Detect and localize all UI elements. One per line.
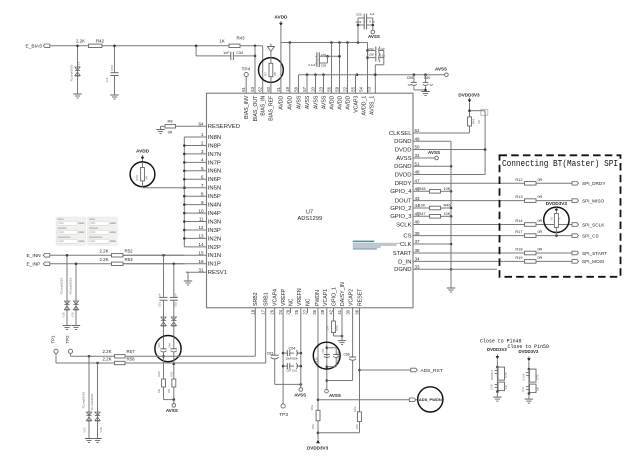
- svg-text:15: 15: [198, 251, 204, 256]
- capacitor C55 pair decoupling top: [356, 12, 375, 43]
- svg-text:0R: 0R: [157, 389, 161, 393]
- svg-text:AVDD: AVDD: [329, 95, 335, 109]
- svg-text:C65: C65: [321, 348, 325, 353]
- svg-text:AVSS: AVSS: [166, 408, 178, 413]
- svg-text:25: 25: [294, 309, 299, 314]
- svg-text:AVSS: AVSS: [313, 95, 319, 109]
- svg-text:17: 17: [261, 309, 266, 314]
- svg-text:2.2K: 2.2K: [99, 248, 108, 253]
- svg-text:AVDD: AVDD: [288, 95, 294, 109]
- svg-text:21: 21: [276, 86, 281, 91]
- op-amp U7 ADS1299 IC body: [207, 93, 414, 308]
- svg-text:AVSS: AVSS: [435, 67, 447, 72]
- svg-text:57: 57: [302, 86, 307, 91]
- svg-text:12: 12: [198, 225, 204, 230]
- svg-text:29: 29: [286, 309, 291, 314]
- svg-text:64: 64: [198, 122, 204, 127]
- svg-text:42: 42: [329, 309, 334, 314]
- svg-text:10K: 10K: [311, 424, 315, 429]
- svg-text:RESET: RESET: [357, 288, 363, 306]
- svg-text:V16: V16: [70, 312, 74, 318]
- svg-text:18: 18: [250, 309, 255, 314]
- svg-text:RESERVED: RESERVED: [208, 124, 240, 130]
- resistor R56 10K on GPIO_1: [326, 308, 344, 338]
- svg-text:10: 10: [198, 208, 204, 213]
- svg-text:SRB1: SRB1: [264, 292, 270, 306]
- svg-text:E_BIAS: E_BIAS: [26, 44, 43, 50]
- capacitor C64 pair VREFP-VREFN: [283, 347, 301, 361]
- svg-text:DVDD3V3: DVDD3V3: [518, 349, 538, 354]
- svg-text:VREFP: VREFP: [281, 288, 287, 306]
- svg-text:V18: V18: [99, 427, 103, 433]
- svg-text:C53: C53: [110, 65, 114, 71]
- svg-text:31: 31: [198, 267, 204, 272]
- svg-text:30: 30: [346, 309, 351, 314]
- TVS array V14 (RComp0502/2) on E_BIAS: [69, 45, 80, 95]
- ground for DGND trunk: [447, 288, 455, 292]
- svg-text:AVDD: AVDD: [337, 95, 343, 109]
- svg-text:E_INN: E_INN: [27, 253, 42, 259]
- wire RESET vertical pin36: [358, 308, 361, 412]
- svg-text:44: 44: [415, 203, 421, 208]
- svg-text:DVDD3V3: DVDD3V3: [546, 201, 568, 206]
- svg-text:AVSS_1: AVSS_1: [369, 96, 375, 115]
- svg-text:DGND: DGND: [394, 164, 411, 170]
- capacitor C66 on VCAP2 pin30: [327, 308, 356, 381]
- svg-text:24: 24: [278, 309, 283, 314]
- svg-text:AVSS: AVSS: [368, 34, 380, 39]
- svg-text:SCLK: SCLK: [396, 222, 411, 228]
- wire AVDD rail: [281, 41, 368, 44]
- svg-text:27: 27: [303, 309, 308, 314]
- title Connecting BT(Master) SPI: [502, 158, 618, 169]
- svg-text:R46: R46: [444, 203, 451, 208]
- svg-text:0.1u: 0.1u: [380, 53, 386, 57]
- svg-text:DGND: DGND: [394, 139, 411, 145]
- svg-text:RComp0502/2: RComp0502/2: [82, 391, 86, 408]
- wire R58 to SRB1: [125, 362, 266, 364]
- svg-text:IN5N: IN5N: [208, 186, 221, 192]
- parameter table 2: [88, 217, 118, 245]
- svg-text:35: 35: [312, 309, 317, 314]
- svg-text:R19: R19: [515, 255, 522, 260]
- wire R43 output node to pin62: [241, 45, 263, 48]
- svg-text:IN6N: IN6N: [208, 169, 221, 175]
- ground for V14: [73, 94, 81, 98]
- ground for DAISY_IN: [338, 341, 346, 345]
- capacitor C44 in circle right: [169, 337, 177, 380]
- svg-text:63: 63: [250, 86, 255, 91]
- wire DVDD3V3 branch to DVDD trunk: [468, 109, 485, 174]
- wire E_BIAS to R42: [50, 45, 88, 47]
- svg-text:C44: C44: [169, 343, 172, 348]
- capacitor C52 C58 cluster on AVDD_1: [368, 47, 386, 65]
- svg-text:0R: 0R: [477, 120, 481, 124]
- svg-text:10K: 10K: [326, 325, 330, 330]
- wire DGND pin33: [413, 268, 497, 270]
- svg-text:DGND: DGND: [394, 267, 411, 273]
- capacitor C59 on AVSS rail: [407, 75, 426, 90]
- svg-text:IN3P: IN3P: [208, 228, 221, 234]
- svg-text:START: START: [393, 251, 412, 257]
- test point TP2: [65, 335, 73, 354]
- node E_BIAS input tag: [26, 44, 50, 50]
- node ADS_PWDN tag and emphasis circle: [409, 387, 443, 412]
- svg-text:C72: C72: [536, 374, 540, 380]
- resistor R17 0R: [515, 229, 572, 237]
- svg-text:1K: 1K: [219, 39, 224, 44]
- svg-text:46: 46: [415, 187, 421, 192]
- svg-text:C64: C64: [289, 347, 296, 351]
- svg-text:V17: V17: [83, 427, 87, 433]
- svg-text:C51: C51: [356, 20, 362, 24]
- wire AVDD_1 pin54 stub from rail corner: [366, 43, 369, 94]
- resistor R20 0R: [157, 371, 166, 400]
- resistor R52 2.2K: [99, 248, 133, 257]
- wire DVDD pin48: [413, 174, 485, 176]
- svg-text:R52: R52: [124, 248, 133, 253]
- svg-text:R20: R20: [157, 371, 161, 377]
- svg-text:VCAP1: VCAP1: [323, 289, 329, 306]
- svg-text:AVDD: AVDD: [279, 95, 285, 109]
- U7 bottom pin numbers and names: [250, 282, 363, 315]
- svg-text:R61: R61: [310, 404, 314, 410]
- svg-text:11: 11: [199, 217, 204, 222]
- wire TP1 to R58 row: [56, 353, 115, 364]
- svg-text:AVDD: AVDD: [136, 149, 150, 154]
- svg-text:R43: R43: [236, 35, 245, 40]
- svg-text:AVSS: AVSS: [305, 95, 311, 109]
- wire AVDD pin19 stub: [289, 43, 291, 94]
- svg-text:0R: 0R: [538, 256, 543, 260]
- svg-text:AVDD: AVDD: [274, 15, 288, 20]
- svg-text:R7: R7: [263, 72, 267, 76]
- resistor R15 10K pullup in emphasis circle: [544, 201, 569, 236]
- svg-text:1nF: 1nF: [158, 293, 162, 298]
- AVSS pigtail right end of rail: [435, 67, 448, 77]
- svg-text:NC: NC: [305, 298, 311, 306]
- svg-text:23: 23: [319, 86, 324, 91]
- node SPI_DRDY tag: [572, 181, 606, 186]
- svg-text:DRDY: DRDY: [395, 181, 412, 187]
- resistor R42 2.2K: [76, 39, 105, 48]
- capacitor C72 C71 decoupling close to pin50: [518, 349, 539, 403]
- capacitor C54 1nF across R43: [195, 45, 255, 61]
- svg-text:SPI_SCLK: SPI_SCLK: [582, 222, 605, 227]
- svg-text:CS: CS: [403, 234, 411, 240]
- svg-text:GPIO_2: GPIO_2: [390, 206, 411, 212]
- label Close to Pin50: [508, 344, 550, 350]
- wire CLK pin37 tied to DGND trunk: [413, 243, 451, 245]
- svg-text:AVSS: AVSS: [396, 156, 411, 162]
- wire D_IN to SPI_MOSI row: [413, 260, 525, 262]
- svg-text:BIAS_REF: BIAS_REF: [269, 96, 275, 121]
- svg-text:IN4N: IN4N: [208, 203, 221, 209]
- svg-text:43: 43: [415, 196, 421, 201]
- svg-text:C66: C66: [343, 353, 349, 357]
- svg-text:49: 49: [415, 137, 421, 142]
- svg-text:50: 50: [415, 145, 421, 150]
- svg-text:SPI_DRDY: SPI_DRDY: [582, 181, 606, 186]
- ground for C59 C60: [421, 92, 429, 96]
- svg-text:R53: R53: [124, 257, 133, 262]
- svg-text:NC: NC: [288, 298, 294, 306]
- wire TP2 to R57 row: [71, 353, 115, 357]
- svg-text:20: 20: [311, 86, 316, 91]
- resistor R44 0R pullup CLKSEL: [468, 117, 482, 133]
- svg-text:IN8P: IN8P: [208, 143, 221, 149]
- svg-text:TP3: TP3: [279, 412, 288, 418]
- svg-text:U7: U7: [306, 210, 313, 216]
- wire DGND pin49 to trunk: [413, 140, 451, 142]
- svg-text:CLK: CLK: [400, 242, 412, 248]
- capacitor C70 C68 decoupling close to pin48: [487, 347, 508, 401]
- wire BIAS_OUT vertical pin63: [254, 46, 257, 93]
- ground for V18: [93, 439, 101, 443]
- svg-text:K: K: [557, 217, 561, 219]
- svg-text:47: 47: [415, 179, 421, 184]
- svg-text:2.2K: 2.2K: [99, 257, 108, 262]
- svg-text:1nF: 1nF: [223, 51, 230, 55]
- resistor R53 2.2K: [99, 257, 133, 266]
- wire START to SPI_START row: [413, 252, 525, 254]
- svg-text:10K: 10K: [419, 204, 426, 208]
- test point TP3 on VREFP: [279, 404, 288, 418]
- TVS array V15 (RComp0502/2) on E_INN: [59, 254, 69, 326]
- resistor R19 0R: [515, 255, 572, 263]
- svg-text:BIAS_OUT: BIAS_OUT: [253, 95, 259, 121]
- svg-text:DVDD: DVDD: [395, 147, 412, 153]
- node SPI_CS tag: [572, 233, 599, 238]
- svg-text:36: 36: [355, 309, 360, 314]
- svg-text:D_IN: D_IN: [398, 259, 411, 265]
- svg-text:ADS1299: ADS1299: [297, 216, 322, 222]
- wire E_INN row: [50, 254, 112, 256]
- label Close to Pin48: [480, 339, 522, 345]
- svg-text:PWDN: PWDN: [315, 290, 321, 306]
- svg-text:38: 38: [415, 248, 421, 253]
- AVSS pigtail for C55: [368, 30, 380, 39]
- TVS pair below C61: [161, 313, 166, 337]
- svg-text:Connecting BT(Master) SPI: Connecting BT(Master) SPI: [502, 158, 618, 169]
- svg-text:TP4: TP4: [241, 66, 250, 71]
- node ADS_RST tag: [411, 368, 443, 374]
- svg-text:SPI_START: SPI_START: [582, 251, 607, 256]
- svg-text:IN1P: IN1P: [208, 262, 221, 268]
- wire PWDN row to ADS_PWDN: [318, 399, 418, 401]
- ground for V16: [72, 326, 80, 330]
- wire DRDY to SPI_DRDY row: [413, 182, 525, 184]
- svg-text:61: 61: [241, 86, 246, 91]
- wire AVDD R10 to input bus: [143, 187, 185, 189]
- capacitor C57 C56 pair on AVSS rail: [316, 52, 341, 67]
- svg-text:0.1uF: 0.1uF: [521, 373, 525, 380]
- svg-text:0R: 0R: [538, 230, 543, 234]
- svg-text:R17: R17: [515, 229, 522, 234]
- svg-text:R18: R18: [515, 247, 522, 252]
- svg-text:10K: 10K: [444, 187, 451, 191]
- svg-text:IN4P: IN4P: [208, 211, 221, 217]
- svg-text:C60: C60: [424, 76, 431, 80]
- svg-text:C62: C62: [174, 302, 178, 307]
- svg-text:1uF: 1uF: [380, 47, 385, 51]
- svg-text:GPIO_3: GPIO_3: [390, 214, 412, 220]
- svg-text:IN7N: IN7N: [208, 152, 221, 158]
- wire R20 R21 common to AVSS: [164, 398, 176, 403]
- wire NC pin29 stub: [290, 308, 292, 313]
- junction CS pullup: [555, 234, 558, 237]
- svg-text:C59: C59: [407, 76, 414, 80]
- svg-text:R62: R62: [353, 406, 357, 412]
- svg-text:R8: R8: [167, 119, 173, 124]
- svg-text:10uF/6.3: 10uF/6.3: [490, 369, 494, 380]
- svg-text:10: 10: [549, 216, 553, 220]
- svg-text:CLKSEL: CLKSEL: [389, 131, 412, 137]
- wire R62 to DVDD3V3 bottom flag: [318, 432, 360, 434]
- svg-text:IN3N: IN3N: [208, 219, 221, 225]
- svg-text:45: 45: [415, 212, 421, 217]
- dashed box Connecting BT(Master) SPI: [500, 155, 621, 276]
- wire AVDD pins 56 59 22 stubs: [332, 43, 348, 94]
- svg-text:IN7P: IN7P: [208, 160, 221, 166]
- wire CLKSEL to R44: [413, 132, 470, 134]
- svg-text:V14: V14: [77, 62, 81, 68]
- svg-text:IN6P: IN6P: [208, 177, 221, 183]
- svg-text:VREFN: VREFN: [297, 288, 303, 306]
- svg-text:R12: R12: [515, 177, 522, 182]
- wire SRB2 vertical pin18: [254, 308, 256, 357]
- svg-text:22: 22: [343, 86, 348, 91]
- svg-text:AVSS: AVSS: [294, 392, 306, 397]
- capacitor C61 1nF on IN1N: [158, 255, 168, 313]
- AVSS pigtail for VREFN: [294, 388, 306, 398]
- resistor R18 0R: [515, 247, 572, 255]
- svg-text:62: 62: [258, 86, 263, 91]
- wire DOUT to SPI_MISO row: [413, 200, 525, 202]
- node E_INN input tag: [27, 253, 50, 259]
- AVSS pigtail pin32: [428, 150, 440, 160]
- svg-text:32: 32: [415, 153, 421, 158]
- TVS array V17 (RComp0502/2) below TP2 node: [82, 356, 92, 438]
- svg-text:100uF/6.3V: 100uF/6.3V: [337, 351, 340, 364]
- svg-text:59: 59: [335, 86, 340, 91]
- wire VCAP1 vertical pin28: [326, 308, 329, 389]
- svg-text:SRB2: SRB2: [253, 292, 259, 306]
- svg-text:VCAP3: VCAP3: [353, 96, 359, 113]
- svg-text:0R: 0R: [167, 389, 171, 393]
- svg-text:AVSS: AVSS: [329, 393, 341, 398]
- resistor R14 0R: [515, 218, 572, 226]
- net tie symbol above R7: [267, 44, 274, 52]
- svg-text:28: 28: [320, 309, 325, 314]
- svg-text:C57: C57: [321, 53, 327, 57]
- svg-text:R56: R56: [335, 325, 339, 331]
- svg-text:C68: C68: [490, 384, 494, 390]
- svg-text:C61: C61: [158, 302, 162, 307]
- svg-text:2.2K: 2.2K: [102, 349, 111, 354]
- svg-text:R44: R44: [472, 118, 476, 124]
- svg-text:R10: R10: [135, 175, 139, 181]
- label 0.1uF near AVSS rail: [308, 63, 315, 67]
- svg-text:16: 16: [198, 259, 204, 264]
- svg-text:C71: C71: [521, 386, 525, 392]
- svg-text:SPI_CS: SPI_CS: [582, 233, 599, 238]
- svg-text:C55: C55: [356, 12, 362, 16]
- svg-text:BIAS_IN: BIAS_IN: [261, 95, 267, 115]
- svg-text:TP1: TP1: [51, 335, 56, 344]
- wire PWDN vertical pin35: [317, 308, 320, 411]
- wire left input bus: [183, 137, 186, 247]
- svg-text:53: 53: [367, 86, 372, 91]
- svg-text:0R: 0R: [538, 219, 543, 223]
- capacitor C43 in circle left: [158, 337, 166, 380]
- svg-text:R14: R14: [515, 218, 523, 223]
- resistor R45 10K on GPIO_4: [413, 186, 451, 193]
- svg-text:19: 19: [285, 86, 290, 91]
- svg-text:AVSS: AVSS: [321, 95, 327, 109]
- svg-text:IN1N: IN1N: [208, 253, 221, 259]
- svg-text:33: 33: [415, 265, 421, 270]
- svg-text:RComp0502/2: RComp0502/2: [90, 393, 94, 410]
- svg-text:ADS_PWDN: ADS_PWDN: [419, 397, 442, 402]
- wire E_INP row: [50, 263, 112, 265]
- svg-text:60: 60: [266, 86, 271, 91]
- svg-text:DAISY_IN: DAISY_IN: [340, 282, 346, 306]
- ground for RESV1: [184, 272, 192, 285]
- resistor R8 0R on RESERVED: [161, 119, 176, 135]
- svg-text:C43: C43: [158, 343, 161, 348]
- wire SCLK to SPI_SCLK row: [413, 224, 525, 226]
- svg-text:10K: 10K: [444, 212, 451, 216]
- AVSS pigtail below R21: [166, 404, 178, 413]
- svg-text:26: 26: [270, 309, 275, 314]
- resistor R62 10K on RESET: [353, 406, 361, 433]
- capacitor 100uF/6.3V branch in circle: [327, 348, 340, 367]
- svg-text:10uF/100n: 10uF/100n: [286, 357, 299, 361]
- resistor R21 0R: [167, 371, 176, 400]
- resistor R47 10K on GPIO_3: [413, 211, 451, 218]
- test point TP4 on BIAS_INV: [241, 66, 250, 93]
- capacitor C62 1nF on IN1P: [170, 264, 178, 313]
- emphasis circle VCAP storage caps C65: [313, 342, 340, 369]
- wire DAISY_IN vertical pin41: [341, 308, 343, 341]
- svg-text:54: 54: [359, 86, 364, 91]
- wire DGND trunk vertical: [450, 141, 453, 288]
- parameter table 1: [56, 217, 86, 245]
- wire AVSS_1 pin53 stub: [374, 65, 377, 93]
- svg-text:TP2: TP2: [65, 335, 70, 344]
- capacitor C63 on VCAP4: [267, 308, 279, 385]
- node SPI_START tag: [572, 251, 607, 256]
- svg-text:VCAP2: VCAP2: [348, 289, 354, 306]
- ground for V15: [63, 326, 71, 330]
- node SPI_MOSI tag: [572, 259, 604, 264]
- wire R57 to SRB2: [125, 355, 255, 357]
- svg-text:41: 41: [337, 309, 342, 314]
- TVS array V16 (RComp0502/2) on E_INP: [68, 263, 78, 326]
- node E_INP input tag: [27, 262, 50, 268]
- node SPI_MISO tag: [572, 198, 604, 203]
- svg-text:14: 14: [198, 242, 204, 247]
- ground for V17: [85, 439, 93, 443]
- svg-text:GPIO_4: GPIO_4: [390, 189, 412, 195]
- svg-text:1nF: 1nF: [105, 77, 109, 82]
- svg-text:IN8N: IN8N: [208, 135, 221, 141]
- svg-text:RComp0502/2: RComp0502/2: [68, 277, 72, 294]
- wire CS to SPI_CS row: [413, 235, 525, 237]
- svg-text:E_INP: E_INP: [27, 262, 41, 268]
- emphasis circle around input coupling caps: [155, 336, 181, 362]
